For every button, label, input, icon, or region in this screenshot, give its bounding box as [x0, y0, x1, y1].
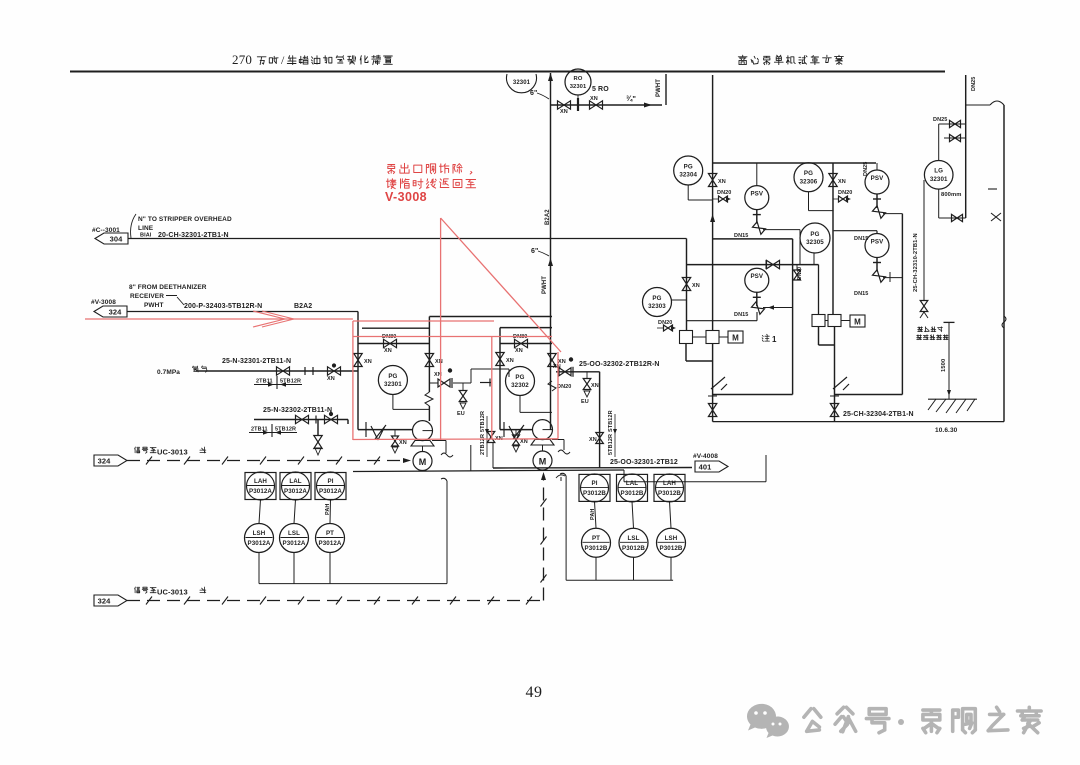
watermark text: [804, 707, 889, 732]
svg-text:LAH: LAH: [254, 478, 267, 485]
PSV 3 top right: [865, 170, 889, 194]
svg-text:P3012A: P3012A: [248, 540, 271, 547]
svg-text:PSV: PSV: [871, 175, 884, 182]
svg-text:PG: PG: [388, 373, 397, 380]
header rule: [70, 71, 945, 73]
pump B discharge riser valves: [548, 354, 556, 367]
expansion joint on riser A: [425, 392, 433, 406]
flow arrow on vent header: [644, 103, 652, 108]
svg-text:DN20: DN20: [838, 190, 852, 196]
arrow into pump A motor: [403, 458, 411, 463]
svg-text:B2A2: B2A2: [545, 209, 551, 225]
svg-text:32302: 32302: [511, 382, 529, 389]
pump B drain to sewer: [552, 440, 564, 451]
check valve on column x713: [711, 377, 727, 390]
svg-text:XN: XN: [515, 348, 523, 354]
red bottom edge: [353, 438, 558, 441]
svg-text:XN: XN: [838, 179, 846, 185]
union on N2 line B: [315, 416, 317, 424]
PG 32301 tap line: [393, 395, 430, 410]
pump A enclosure bottom line: [353, 470, 624, 472]
pump B discharge gooseneck to header: [556, 372, 600, 468]
svg-text:32306: 32306: [800, 179, 818, 186]
svg-text:P3012A: P3012A: [283, 540, 306, 547]
svg-text:2TB12R: 2TB12R: [480, 434, 486, 455]
drain valve XN below pump B: [515, 430, 517, 435]
pump A suction drop pipe: [357, 312, 359, 430]
svg-text:#V-3008: #V-3008: [91, 299, 116, 306]
gate valve XN on pump A suction drop: [354, 354, 362, 367]
svg-text:P3012A: P3012A: [249, 488, 272, 495]
pipes below right squares: [819, 327, 835, 422]
level gauge LG 32301: [924, 161, 953, 190]
svg-text:270: 270: [232, 52, 252, 67]
instrument circle 32301 (clipped by header rule): [507, 74, 537, 93]
svg-text:324: 324: [98, 457, 112, 466]
discharge header 25-CH-32304 pipe: [713, 421, 1004, 423]
tee mark under pump B: [556, 475, 565, 478]
pump A base: [411, 441, 434, 447]
note label 1: [762, 334, 769, 341]
drain valve XN below N2 line B: [317, 420, 319, 437]
svg-text:LAH: LAH: [663, 480, 676, 487]
gate valve XN on discharge drop B: [596, 433, 604, 444]
svg-text:32304: 32304: [679, 172, 697, 179]
signal wires group A: [259, 500, 331, 524]
svg-text:324: 324: [98, 597, 112, 606]
svg-text:PSV: PSV: [871, 238, 884, 245]
gate valve XN right: [590, 101, 603, 109]
pump B casing: [533, 420, 553, 440]
grade/ground hatch: [928, 398, 977, 400]
globe valve with plug on N2 line B: [325, 415, 338, 423]
pump A discharge riser: [428, 317, 430, 422]
pump B enclosure left edge: [492, 443, 494, 468]
svg-text:XN: XN: [718, 179, 726, 185]
DN20 drop valve on subheader: [796, 265, 798, 270]
svg-text:5TB12R: 5TB12R: [608, 434, 614, 455]
svg-text:DN20: DN20: [557, 384, 571, 390]
svg-text:P3012B: P3012B: [622, 545, 645, 552]
PG 32304 tap: [688, 185, 712, 200]
lower enclosure line right section: [624, 455, 766, 482]
transmitter PT P3012A: [316, 524, 345, 553]
gate valve on N2 line A: [277, 367, 290, 375]
pipes below squares joining: [686, 344, 713, 422]
svg-text:LAL: LAL: [626, 480, 638, 487]
pump A bypass DN80 pipe: [358, 343, 429, 345]
svg-text:LSH: LSH: [253, 530, 266, 537]
svg-text:PG: PG: [652, 295, 661, 302]
spec break S on right drop: [1002, 316, 1006, 328]
pressure gauge PG 32305: [800, 223, 830, 253]
svg-text:DN15: DN15: [734, 233, 748, 239]
svg-text:401: 401: [699, 463, 712, 472]
label signal to UC-3013 row1: [135, 447, 157, 453]
EU drain valve on discharge B: [586, 372, 588, 378]
svg-text:P3012B: P3012B: [621, 490, 644, 497]
svg-text:PT: PT: [326, 530, 334, 537]
pressure gauge PG 32303: [643, 288, 672, 317]
panel gauge PI P3012B: [579, 474, 610, 501]
nitrogen line B terminus at pump B suction: [480, 382, 491, 384]
svg-text:RO: RO: [574, 76, 583, 82]
check valve right column: [833, 377, 849, 390]
svg-text:PG: PG: [804, 170, 813, 177]
panel light LAL P3012A: [280, 473, 311, 500]
gate valve DN80 XN on bypass A: [384, 339, 397, 347]
pump B bypass DN80 pipe: [500, 343, 552, 345]
globe valve XN with plug on discharge B: [559, 368, 571, 376]
svg-text:PWHT: PWHT: [656, 79, 662, 97]
arrow into pump B motor: [541, 472, 546, 480]
label signal to UC-3013 row2: [135, 587, 157, 593]
svg-text:DN20: DN20: [658, 320, 672, 326]
pump B motor M: [542, 445, 544, 451]
pump A bypass upper pipe: [362, 327, 429, 329]
red inner line: [353, 336, 552, 338]
PSV discharge riser x902: [901, 214, 903, 395]
svg-text:XN: XN: [589, 437, 597, 443]
nitrogen pipe to pump B suction: [254, 420, 348, 425]
svg-text:5 RO: 5 RO: [592, 86, 609, 93]
bypass loop left pipe: [713, 239, 793, 395]
svg-text:LG: LG: [934, 168, 943, 175]
pump A casing: [413, 421, 433, 441]
standpipe with cap: [944, 321, 955, 323]
switch LSH P3012A: [245, 524, 274, 553]
svg-text:V-3008: V-3008: [385, 190, 427, 204]
svg-text:304: 304: [110, 235, 124, 244]
LG bridle pipes: [938, 124, 940, 218]
gate valve XN on enclosure line B: [487, 432, 495, 443]
svg-text:XN: XN: [560, 109, 568, 115]
pressure gauge PG 32306: [794, 163, 823, 192]
svg-text:1: 1: [772, 335, 777, 344]
header title right: [738, 55, 843, 64]
EU drain valve: [462, 383, 464, 390]
svg-text:DN15: DN15: [854, 291, 868, 297]
svg-text:M: M: [539, 457, 547, 467]
arrow up on x712.6: [710, 214, 715, 222]
gate valve XN on discharge riser A: [425, 354, 433, 367]
svg-text:49: 49: [526, 684, 543, 701]
svg-text:P3012B: P3012B: [658, 490, 681, 497]
discharge header 25-OO-32301 pipe: [493, 467, 692, 470]
svg-text:DN20: DN20: [717, 190, 731, 196]
svg-text:P3012B: P3012B: [585, 545, 608, 552]
gate valve on x833 top: [832, 163, 834, 315]
bottom stub with valve: [939, 217, 966, 219]
svg-text:XN: XN: [553, 364, 561, 370]
svg-text:N" TO STRIPPER OVERHEAD: N" TO STRIPPER OVERHEAD: [138, 216, 232, 223]
pressure gauge PG 32302: [506, 367, 535, 396]
svg-text:P3012A: P3012A: [319, 488, 342, 495]
tiny note text 2 lines: [918, 327, 943, 332]
gate valve on subheader: [767, 260, 780, 268]
bypass loop right pipe: [835, 394, 903, 396]
motor actuator box M right: [850, 315, 865, 327]
motor actuator box M left: [728, 331, 743, 343]
svg-text:XN: XN: [435, 359, 443, 365]
red vertical through pump A: [440, 218, 442, 440]
svg-text:BIAI: BIAI: [140, 233, 152, 239]
drain valve XN below pump A: [394, 430, 396, 436]
PSV 1 top left: [745, 186, 769, 210]
svg-text:PSV: PSV: [750, 273, 763, 280]
svg-text:32305: 32305: [806, 239, 824, 246]
svg-text:5TB12R: 5TB12R: [480, 411, 486, 432]
unions on N2 line A: [305, 367, 313, 375]
svg-text:EU: EU: [457, 411, 465, 417]
long vertical pipe x712.6: [712, 75, 714, 331]
pump A enclosure right edge: [470, 445, 472, 471]
signal bus group B: [566, 476, 673, 580]
gate valve on drop: [682, 278, 690, 291]
svg-text:25-OO-32301-2TB12: 25-OO-32301-2TB12: [610, 459, 678, 466]
gate valve DN80 XN on bypass B: [515, 339, 528, 347]
svg-text:¾": ¾": [626, 94, 636, 103]
svg-text:PI: PI: [591, 480, 597, 487]
PSV 2 bottom left: [745, 268, 769, 292]
svg-text:32303: 32303: [648, 303, 666, 310]
svg-text:PSV: PSV: [750, 190, 763, 197]
gate valve XN on pump B suction: [496, 353, 504, 366]
globe valve XN with plug on N2 line A: [328, 367, 341, 375]
svg-text:200-P-32403-5TB12R-N: 200-P-32403-5TB12R-N: [184, 303, 262, 310]
panel gauge PI P3012A: [315, 473, 346, 500]
nitrogen pipe to pump A suction: [196, 370, 358, 372]
panel light LAH P3012B: [654, 474, 685, 501]
suction header pipe: [127, 311, 358, 313]
gate valve right column: [830, 404, 838, 417]
gate valve on x712.6 top: [708, 174, 716, 187]
svg-text:25-CH-32310-2TB1-N: 25-CH-32310-2TB1-N: [913, 233, 919, 292]
svg-text:XN: XN: [692, 283, 700, 289]
motor valve pair squares left: [680, 331, 693, 344]
stripper overhead pipe: [128, 238, 687, 240]
svg-text:XN: XN: [399, 440, 407, 446]
pump B suction top pipe: [500, 327, 552, 329]
svg-text:25-OO-32302-2TB12R-N: 25-OO-32302-2TB12R-N: [579, 361, 660, 368]
svg-text:6": 6": [531, 248, 538, 255]
PSV3 angle valve outlet: [872, 206, 885, 219]
svg-text:LINE: LINE: [138, 225, 154, 232]
PG 32306 tap: [809, 192, 834, 211]
DN20 angle valve on riser B: [548, 381, 556, 391]
arrow up on riser: [548, 258, 553, 266]
discharge link pipe A to riser: [429, 316, 552, 318]
vent globe valve XN with plug (pump A discharge): [429, 382, 438, 384]
svg-text:PT: PT: [592, 535, 600, 542]
red mid vertical: [491, 337, 493, 439]
svg-text:32301: 32301: [570, 84, 587, 90]
gate valve on N2 line B: [296, 415, 309, 423]
svg-text:25-CH-32304-2TB1-N: 25-CH-32304-2TB1-N: [843, 411, 914, 418]
switch LSL P3012A: [280, 524, 309, 553]
pump B suction drop pipe: [499, 328, 501, 430]
svg-text:1500: 1500: [941, 359, 947, 372]
PSV 4 bottom right: [834, 231, 877, 234]
relief subheader y264.6: [687, 264, 819, 266]
svg-text:PG: PG: [515, 374, 524, 381]
switch LSL P3012B: [619, 528, 648, 557]
svg-text:32301: 32301: [930, 176, 948, 183]
temporary strainer pump B: [500, 429, 533, 431]
svg-text:XN: XN: [384, 348, 392, 354]
signal flag 324 row 1: [94, 455, 127, 466]
header title left: [232, 52, 392, 67]
PG 32303 tap: [672, 299, 687, 301]
svg-text:M: M: [419, 457, 427, 467]
svg-text:PWHT: PWHT: [144, 302, 164, 309]
svg-text:RECEIVER: RECEIVER: [130, 293, 164, 300]
signal dashed line row 1: [127, 460, 406, 462]
svg-text:EU: EU: [581, 399, 589, 405]
PWHT riser at top: [665, 74, 667, 105]
red enclosure top edge: [353, 320, 494, 322]
svg-text:UC-3013: UC-3013: [157, 588, 188, 597]
svg-text:M: M: [854, 318, 861, 327]
svg-text:0.7MPa: 0.7MPa: [157, 369, 180, 376]
red diagonal to note: [441, 218, 561, 352]
switch LSH P3012B: [657, 528, 686, 557]
gate valve XN on vent line: [558, 101, 571, 109]
signal bus group A: [259, 481, 447, 584]
svg-text:PG: PG: [684, 163, 693, 170]
svg-text:XN: XN: [591, 383, 599, 389]
svg-text:25-N-32301-2TB11-N: 25-N-32301-2TB11-N: [222, 358, 291, 365]
svg-text:P3012B: P3012B: [583, 490, 606, 497]
PSV4 angle valve outlet: [872, 270, 885, 283]
svg-text:324: 324: [109, 308, 123, 317]
svg-text:LSH: LSH: [665, 535, 678, 542]
PSV1 angle valve outlet: [752, 222, 765, 235]
signal dashed line row 2: [127, 600, 545, 602]
svg-text:PWHT: PWHT: [542, 276, 548, 294]
pressure gauge PG 32304: [674, 156, 703, 185]
svg-text:M: M: [732, 334, 739, 343]
svg-text:10.6.30: 10.6.30: [935, 427, 958, 434]
vent pipe to EU drain: [453, 369, 509, 383]
drain drop from bridle: [923, 180, 925, 300]
pump B base: [531, 440, 554, 446]
red enclosure pump A left edge: [352, 321, 354, 440]
svg-text:PG: PG: [810, 231, 819, 238]
svg-text:DN20: DN20: [797, 267, 803, 280]
svg-text:DN25: DN25: [933, 117, 947, 123]
valve stub second: [944, 137, 966, 139]
svg-text:25-N-32302-2TB11-N: 25-N-32302-2TB11-N: [263, 407, 332, 414]
motor valve pair squares right: [812, 315, 825, 327]
svg-text:STB12R: STB12R: [608, 410, 614, 432]
panel light LAH P3012A: [245, 473, 276, 500]
break cross on right drop: [991, 213, 1001, 221]
svg-text:DN25: DN25: [971, 77, 977, 91]
svg-text:P3012B: P3012B: [660, 545, 683, 552]
panel light LAL P3012B: [617, 474, 648, 501]
PG 32305 tap: [813, 253, 815, 265]
svg-text:DN25: DN25: [863, 162, 869, 176]
signal dashed riser to pump B motor: [543, 475, 545, 601]
top right pipe with bend: [965, 75, 967, 218]
svg-text:32301: 32301: [513, 80, 531, 86]
PG 32302 tap line: [520, 396, 552, 413]
svg-text:XN: XN: [327, 376, 335, 382]
branch pipe y239 to PSV bypass: [713, 238, 793, 240]
svg-text:LSL: LSL: [288, 530, 300, 537]
signal wires group B: [595, 501, 672, 528]
drain valve vertical: [920, 301, 928, 312]
svg-text:XN: XN: [364, 359, 372, 365]
svg-text:B2A2: B2A2: [294, 303, 312, 310]
svg-text:8" FROM DEETHANIZER: 8" FROM DEETHANIZER: [129, 284, 207, 291]
svg-text:UC-3013: UC-3013: [157, 448, 188, 457]
svg-text:XN: XN: [506, 358, 514, 364]
arrow up on riser top: [548, 73, 553, 81]
svg-text:LSL: LSL: [628, 535, 640, 542]
svg-text:32301: 32301: [384, 381, 402, 388]
bus hook group B: [560, 473, 566, 476]
temporary strainer pump A: [358, 429, 413, 431]
red vertical pump B: [557, 352, 559, 439]
vent header pipe 3/4in: [551, 104, 663, 106]
svg-text:800mm: 800mm: [941, 192, 961, 198]
svg-text:P3012A: P3012A: [284, 488, 307, 495]
svg-text:6": 6": [530, 90, 537, 97]
PSV2 angle valve outlet: [751, 302, 764, 315]
restriction orifice RO 32301: [565, 69, 591, 95]
svg-text:XN: XN: [590, 96, 598, 102]
red note text: pump outlet valve removed, temporary line returns to V-3008: [388, 163, 472, 174]
pump A drain to sewer: [432, 441, 446, 454]
pump A motor M: [422, 446, 424, 452]
svg-text:P3012A: P3012A: [319, 540, 342, 547]
watermark wechat icon: [747, 704, 789, 738]
svg-text:#V-4008: #V-4008: [693, 453, 718, 460]
red temporary suction line with arrow: [85, 318, 353, 320]
gate valve on column x713: [708, 404, 716, 417]
svg-text:DN15: DN15: [734, 312, 748, 318]
signal flag 324 row 2: [94, 595, 127, 606]
pressure gauge PG 32301: [378, 366, 407, 395]
bus hook group A: [441, 478, 447, 481]
svg-text:LAL: LAL: [289, 478, 301, 485]
svg-text:XN: XN: [520, 439, 528, 445]
svg-text:PI: PI: [327, 478, 333, 485]
transmitter PT P3012B: [582, 528, 611, 557]
vent riser pipe 6in: [550, 73, 552, 430]
psv top header pipe: [713, 162, 876, 164]
stripper line drop at x686: [686, 239, 688, 332]
